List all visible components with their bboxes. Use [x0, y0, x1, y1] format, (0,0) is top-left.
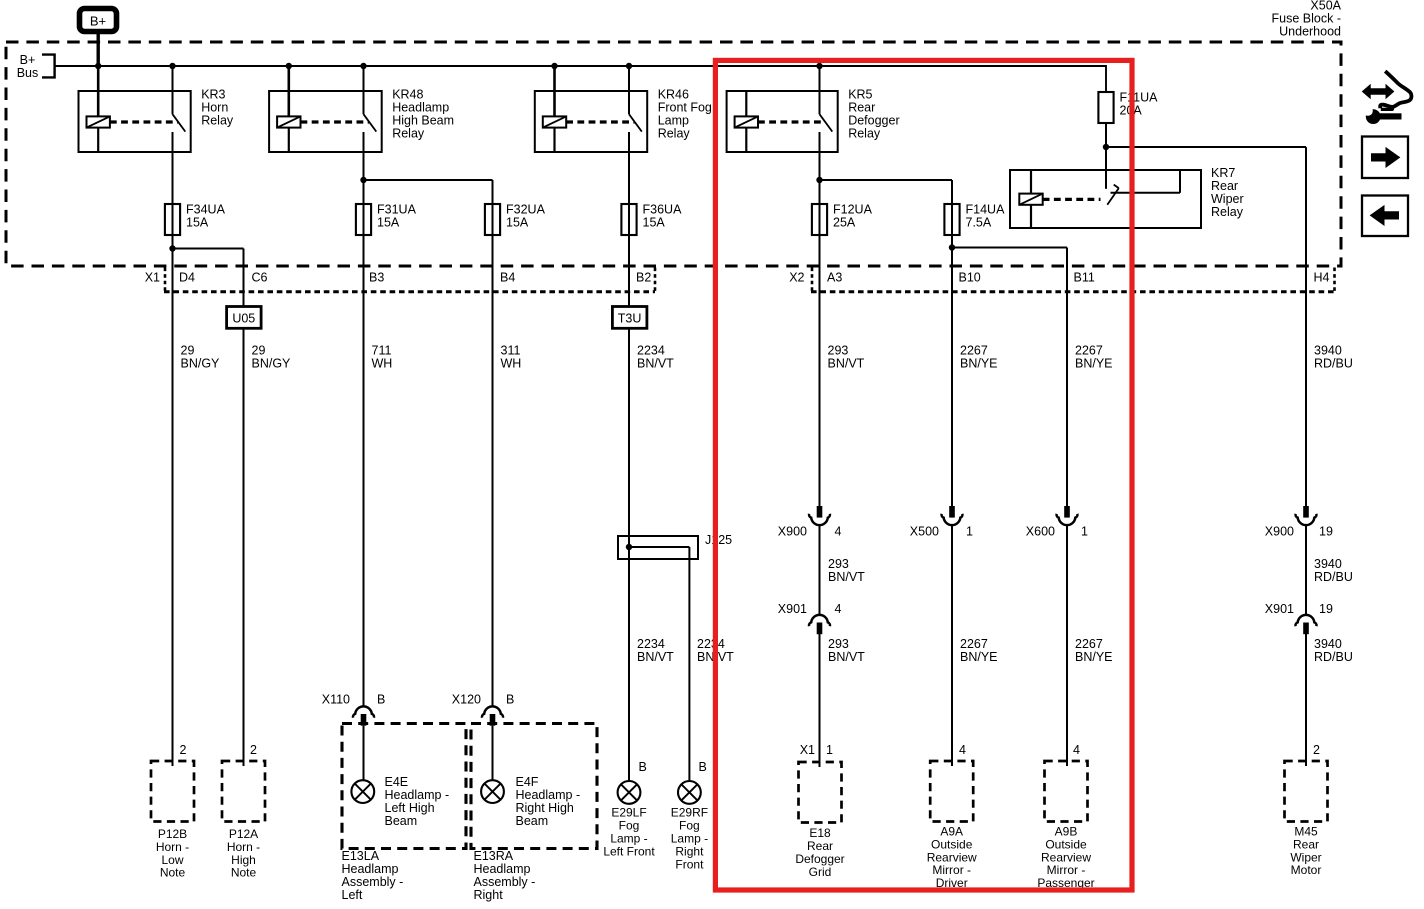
node bus-KR46 switch junction: [626, 63, 632, 69]
svg-text:Headlamp: Headlamp: [342, 862, 399, 876]
wire branch F34UA output to C6 column: [172, 248, 244, 250]
svg-text:Right High: Right High: [516, 801, 574, 815]
svg-text:Wiper: Wiper: [1290, 850, 1321, 864]
node B+ bus / B+ terminal junction: [95, 63, 101, 69]
fuse F32UA: [485, 204, 500, 235]
svg-text:Headlamp -: Headlamp -: [516, 788, 581, 802]
relay KR46 Front Fog Lamp Relay coil: [553, 66, 556, 116]
svg-text:15A: 15A: [377, 216, 400, 230]
svg-text:X600: X600: [1026, 525, 1055, 539]
svg-text:X120: X120: [452, 693, 481, 707]
svg-text:WH: WH: [501, 357, 522, 371]
svg-text:3940: 3940: [1314, 637, 1342, 651]
svg-text:BN/YE: BN/YE: [1075, 357, 1113, 371]
node KR5 switch output junction to F14UA branch: [816, 177, 822, 183]
svg-text:Defogger: Defogger: [795, 852, 844, 866]
wire KR7 switch output to block internal: [1111, 192, 1181, 194]
relay KR3 Horn Relay box: [79, 91, 191, 152]
svg-text:3940: 3940: [1314, 344, 1342, 358]
svg-text:Rearview: Rearview: [927, 850, 977, 864]
svg-text:Outside: Outside: [1045, 837, 1087, 851]
svg-text:Outside: Outside: [931, 837, 973, 851]
relay KR48 Headlamp High Beam Relay coil-switch dashed link: [301, 120, 370, 123]
icon navigate previous (left arrow button): [1362, 196, 1408, 237]
svg-text:Relay: Relay: [392, 127, 425, 141]
wire KR5 switch to F12UA and on to connector A3: [819, 132, 821, 506]
svg-text:2267: 2267: [1075, 344, 1103, 358]
junction block J125: [618, 536, 698, 559]
wire X500 to A9A: [951, 526, 953, 766]
node J125 splice: [626, 544, 632, 550]
svg-text:Headlamp: Headlamp: [474, 862, 531, 876]
svg-text:15A: 15A: [643, 216, 666, 230]
connector X1 lower dashed boundary: [164, 290, 655, 293]
svg-text:E4E: E4E: [385, 775, 409, 789]
fuse F11UA: [1098, 92, 1113, 123]
relay KR3 Horn Relay switch: [172, 66, 174, 114]
svg-text:A9A: A9A: [940, 825, 963, 839]
component A9B Outside Rearview Mirror - Passenger box: [1045, 761, 1088, 822]
connector X2 lower dashed boundary: [811, 290, 1335, 293]
svg-text:Assembly -: Assembly -: [342, 875, 404, 889]
wire B+ bus: [55, 65, 1106, 67]
svg-text:Note: Note: [231, 866, 257, 880]
svg-text:Grid: Grid: [809, 865, 832, 879]
relay KR7 Rear Wiper Relay box: [1010, 170, 1201, 228]
svg-text:2234: 2234: [697, 637, 725, 651]
node bus-KR48 coil junction: [286, 63, 292, 69]
svg-text:Relay: Relay: [1211, 205, 1244, 219]
svg-text:B: B: [639, 760, 647, 774]
icon navigate next (right arrow button): [1362, 137, 1408, 179]
svg-text:Mirror -: Mirror -: [932, 863, 971, 877]
wire F11UA output to KR7 switch contact: [1105, 123, 1107, 189]
svg-text:BN/YE: BN/YE: [960, 650, 998, 664]
connector X901 pin 19 (H4 wire): [1296, 615, 1317, 626]
relay KR48 Headlamp High Beam Relay box: [269, 91, 382, 152]
component M45 Rear Wiper Motor box: [1285, 761, 1328, 822]
svg-text:WH: WH: [372, 357, 393, 371]
svg-text:4: 4: [1073, 743, 1080, 757]
svg-text:Rear: Rear: [1293, 837, 1319, 851]
splice pack T3U: [612, 307, 647, 329]
svg-text:2234: 2234: [637, 637, 665, 651]
svg-text:RD/BU: RD/BU: [1314, 650, 1353, 664]
svg-text:19: 19: [1319, 602, 1333, 616]
svg-text:H4: H4: [1314, 271, 1330, 285]
svg-text:Underhood: Underhood: [1279, 25, 1341, 39]
svg-text:Relay: Relay: [658, 127, 691, 141]
svg-text:High: High: [231, 853, 256, 867]
svg-text:Beam: Beam: [385, 814, 418, 828]
wire 3940 RD/BU between X900 and X901 (H4): [1305, 526, 1307, 614]
wire B+ terminal to bus: [96, 32, 99, 67]
svg-text:X901: X901: [778, 602, 807, 616]
wire branch KR5 output to F14UA (B10 column): [819, 179, 953, 181]
svg-text:BN/GY: BN/GY: [252, 357, 292, 371]
svg-text:KR46: KR46: [658, 88, 689, 102]
svg-text:Defogger: Defogger: [848, 114, 899, 128]
svg-text:311: 311: [501, 344, 521, 358]
svg-text:711: 711: [372, 344, 392, 358]
splice pack U05: [227, 307, 262, 329]
relay KR3 Horn Relay coil-switch dashed link: [110, 120, 178, 123]
svg-text:293: 293: [828, 557, 849, 571]
node F11UA output junction to H4 feed: [1103, 144, 1109, 150]
svg-text:BN/VT: BN/VT: [828, 570, 865, 584]
assembly E13LA Headlamp Assembly - Left dashed box: [342, 724, 466, 849]
svg-text:B+: B+: [90, 14, 106, 29]
relay KR5 Rear Defogger Relay coil: [745, 91, 747, 116]
svg-text:29: 29: [181, 344, 195, 358]
svg-text:F36UA: F36UA: [643, 203, 683, 217]
svg-text:Mirror -: Mirror -: [1047, 863, 1086, 877]
svg-text:B2: B2: [636, 271, 651, 285]
relay KR46 Front Fog Lamp Relay coil-switch dashed link: [566, 120, 634, 123]
svg-text:C6: C6: [252, 271, 268, 285]
svg-text:B: B: [506, 693, 514, 707]
svg-text:Right: Right: [675, 845, 704, 859]
svg-text:High Beam: High Beam: [392, 114, 454, 128]
wire branch KR48 output to F32UA (B4 column): [363, 179, 493, 181]
svg-text:D4: D4: [179, 271, 195, 285]
svg-text:Rearview: Rearview: [1041, 850, 1091, 864]
node F14UA output junction to B11 branch: [949, 244, 955, 250]
svg-text:2: 2: [250, 743, 257, 757]
svg-text:Bus: Bus: [17, 66, 39, 80]
svg-text:B+: B+: [20, 53, 36, 67]
svg-text:BN/YE: BN/YE: [1075, 650, 1113, 664]
svg-text:F31UA: F31UA: [377, 203, 417, 217]
svg-text:BN/VT: BN/VT: [828, 650, 865, 664]
svg-text:2234: 2234: [637, 344, 665, 358]
component P12A Horn - High Note box: [222, 761, 265, 822]
svg-text:Fog: Fog: [619, 819, 640, 833]
svg-text:B11: B11: [1074, 271, 1095, 285]
node F34UA output junction to C6 branch: [169, 245, 175, 251]
svg-text:Beam: Beam: [516, 814, 549, 828]
svg-text:Right: Right: [474, 888, 504, 902]
svg-text:2267: 2267: [960, 344, 988, 358]
bulb E4E Headlamp - Left High Beam: [351, 780, 374, 803]
svg-text:Horn: Horn: [201, 101, 228, 115]
connector X2 separator ticks: [811, 268, 814, 292]
svg-text:Left High: Left High: [385, 801, 435, 815]
wire X901 to M45: [1305, 634, 1307, 766]
svg-text:Relay: Relay: [848, 127, 881, 141]
wire B2 to E29LF fog lamp: [628, 547, 630, 781]
wire bus corner down to F11UA: [1105, 65, 1107, 92]
svg-text:B10: B10: [959, 271, 981, 285]
svg-text:293: 293: [828, 344, 849, 358]
svg-text:Relay: Relay: [201, 114, 234, 128]
svg-text:Horn -: Horn -: [156, 840, 189, 854]
svg-text:B: B: [377, 693, 385, 707]
fuse F34UA: [165, 204, 180, 235]
connector X500 pin 1 (B10 wire): [949, 506, 955, 518]
fuse F12UA: [812, 204, 827, 235]
node bus-KR3 switch junction: [169, 63, 175, 69]
fuse F14UA: [944, 204, 959, 235]
svg-text:F14UA: F14UA: [966, 203, 1006, 217]
svg-text:A3: A3: [827, 271, 842, 285]
svg-text:F11UA: F11UA: [1120, 91, 1159, 105]
svg-text:Rear: Rear: [807, 839, 833, 853]
svg-text:Note: Note: [160, 866, 186, 880]
component E18 Rear Defogger Grid box: [799, 762, 842, 823]
svg-text:B4: B4: [500, 271, 515, 285]
wire F11UA output across to H4 column: [1105, 146, 1306, 148]
svg-text:Headlamp -: Headlamp -: [385, 788, 450, 802]
relay KR7 switch: [1114, 185, 1119, 189]
svg-text:Horn -: Horn -: [227, 840, 260, 854]
svg-text:BN/VT: BN/VT: [828, 357, 865, 371]
svg-text:Headlamp: Headlamp: [392, 101, 449, 115]
connector X120 pin B (B4 wire): [482, 706, 503, 717]
svg-text:Motor: Motor: [1291, 863, 1322, 877]
connector X600 pin 1 (B11 wire): [1064, 506, 1070, 518]
svg-text:X110: X110: [322, 693, 350, 707]
svg-text:M45: M45: [1294, 825, 1318, 839]
relay KR5 Rear Defogger Relay coil-switch dashed link: [758, 120, 825, 123]
svg-text:RD/BU: RD/BU: [1314, 570, 1353, 584]
svg-text:3940: 3940: [1314, 557, 1342, 571]
svg-text:1: 1: [826, 743, 833, 757]
node KR48 switch output junction to B4 branch: [360, 177, 366, 183]
svg-text:X901: X901: [1265, 602, 1294, 616]
svg-text:X1: X1: [800, 743, 815, 757]
svg-text:E18: E18: [809, 826, 831, 840]
svg-text:19: 19: [1319, 525, 1333, 539]
svg-text:E13LA: E13LA: [342, 849, 380, 863]
connector X901 pin 4 (A3 wire): [809, 615, 830, 626]
relay KR48 Headlamp High Beam Relay switch: [363, 66, 365, 114]
svg-text:B: B: [699, 760, 707, 774]
bulb E4F Headlamp - Right High Beam: [481, 780, 504, 803]
wire X110 to E4E bulb: [363, 726, 365, 781]
relay KR46 Front Fog Lamp Relay switch: [628, 66, 630, 114]
B+ power terminal: [80, 9, 117, 32]
connector X900 pin 4 (A3 wire): [817, 506, 823, 518]
wire KR3 switch to F34UA and on to connector D4: [172, 132, 174, 766]
node bus-KR5 switch junction: [816, 63, 822, 69]
svg-text:Assembly -: Assembly -: [474, 875, 536, 889]
svg-text:X900: X900: [1265, 525, 1294, 539]
svg-text:E29RF: E29RF: [671, 806, 708, 820]
svg-text:B3: B3: [369, 271, 384, 285]
relay KR7 coil-switch dashed link: [1043, 198, 1101, 201]
svg-text:Wiper: Wiper: [1211, 192, 1244, 206]
relay KR46 Front Fog Lamp Relay box: [535, 91, 647, 152]
svg-text:T3U: T3U: [618, 311, 642, 325]
svg-text:BN/VT: BN/VT: [637, 357, 674, 371]
svg-text:X900: X900: [778, 525, 807, 539]
wire X901 to E18: [819, 634, 821, 767]
svg-text:Rear: Rear: [848, 101, 875, 115]
svg-text:A9B: A9B: [1055, 825, 1078, 839]
svg-text:Left Front: Left Front: [603, 845, 655, 859]
component A9A Outside Rearview Mirror - Driver box: [930, 761, 973, 822]
svg-text:P12A: P12A: [229, 827, 258, 841]
svg-text:Left: Left: [342, 888, 363, 902]
icon vehicle navigate (double arrow, outline, wrench): [1363, 85, 1394, 98]
svg-text:P12B: P12B: [158, 827, 187, 841]
connector X110 pin B (B3 wire): [353, 706, 374, 717]
relay KR5 Rear Defogger Relay box: [727, 91, 838, 152]
svg-text:KR3: KR3: [201, 88, 225, 102]
svg-text:BN/YE: BN/YE: [960, 357, 998, 371]
wire KR46 switch to F36UA and on to connector B2: [628, 132, 630, 547]
svg-text:7.5A: 7.5A: [966, 216, 992, 230]
node bus-KR48 switch junction: [360, 63, 366, 69]
wire 293 BN/VT between X900 and X901: [819, 526, 821, 614]
assembly E13RA Headlamp Assembly - Right dashed box: [471, 724, 597, 849]
fuse F36UA: [621, 204, 636, 235]
wire KR48 switch to F31UA and on to connector B3: [363, 132, 365, 706]
svg-text:Rear: Rear: [1211, 179, 1238, 193]
svg-text:2: 2: [180, 743, 187, 757]
svg-text:X500: X500: [910, 525, 939, 539]
svg-text:15A: 15A: [186, 216, 209, 230]
svg-text:BN/GY: BN/GY: [181, 357, 221, 371]
red highlight box around KR5 rear defogger circuit: [715, 60, 1132, 890]
wire branch F14UA output to B11 column: [951, 247, 1067, 249]
svg-text:Front: Front: [675, 858, 704, 872]
svg-text:2: 2: [1313, 743, 1320, 757]
component P12B Horn - Low Note box: [151, 761, 194, 822]
svg-text:E29LF: E29LF: [611, 806, 646, 820]
svg-text:4: 4: [835, 602, 842, 616]
svg-text:2267: 2267: [1075, 637, 1103, 651]
svg-text:Fuse Block -: Fuse Block -: [1272, 12, 1341, 26]
svg-text:U05: U05: [232, 311, 255, 325]
relay KR7 coil: [1030, 170, 1032, 194]
svg-text:2267: 2267: [960, 637, 988, 651]
svg-text:25A: 25A: [833, 216, 856, 230]
fuse F31UA: [356, 204, 371, 235]
svg-text:F34UA: F34UA: [186, 203, 226, 217]
wire X120 to E4F bulb: [492, 726, 494, 781]
node bus-KR46 coil junction: [551, 63, 557, 69]
svg-text:4: 4: [959, 743, 966, 757]
wire X600 to A9B: [1066, 526, 1068, 766]
fuse block X50A dashed boundary box: [6, 42, 1341, 266]
svg-text:4: 4: [835, 525, 842, 539]
svg-text:F32UA: F32UA: [506, 203, 546, 217]
svg-text:F12UA: F12UA: [833, 203, 873, 217]
svg-text:1: 1: [1081, 525, 1088, 539]
B+ Bus bracket: [42, 55, 55, 78]
connector X1 separator ticks: [164, 268, 167, 292]
svg-text:J125: J125: [705, 533, 732, 547]
svg-text:Lamp -: Lamp -: [610, 832, 647, 846]
svg-text:BN/VT: BN/VT: [637, 650, 674, 664]
svg-text:E4F: E4F: [516, 775, 539, 789]
svg-text:29: 29: [252, 344, 266, 358]
svg-text:Front Fog: Front Fog: [658, 101, 712, 115]
connector X900 pin 19 (H4 wire): [1303, 506, 1309, 518]
svg-text:KR48: KR48: [392, 88, 423, 102]
svg-text:KR7: KR7: [1211, 166, 1235, 180]
relay KR3 Horn Relay coil: [97, 66, 100, 116]
svg-text:E13RA: E13RA: [474, 849, 514, 863]
svg-text:Low: Low: [161, 853, 183, 867]
svg-text:15A: 15A: [506, 216, 529, 230]
svg-text:X2: X2: [789, 271, 804, 285]
relay KR5 Rear Defogger Relay switch: [819, 66, 821, 114]
svg-text:Lamp -: Lamp -: [671, 832, 708, 846]
wire J125 internal branch: [629, 546, 689, 548]
svg-text:KR5: KR5: [848, 88, 872, 102]
svg-text:Lamp: Lamp: [658, 114, 689, 128]
svg-text:RD/BU: RD/BU: [1314, 357, 1353, 371]
svg-text:293: 293: [828, 637, 849, 651]
relay KR48 Headlamp High Beam Relay coil: [287, 66, 290, 116]
svg-text:Fog: Fog: [679, 819, 700, 833]
svg-text:X1: X1: [145, 271, 160, 285]
svg-text:1: 1: [966, 525, 973, 539]
